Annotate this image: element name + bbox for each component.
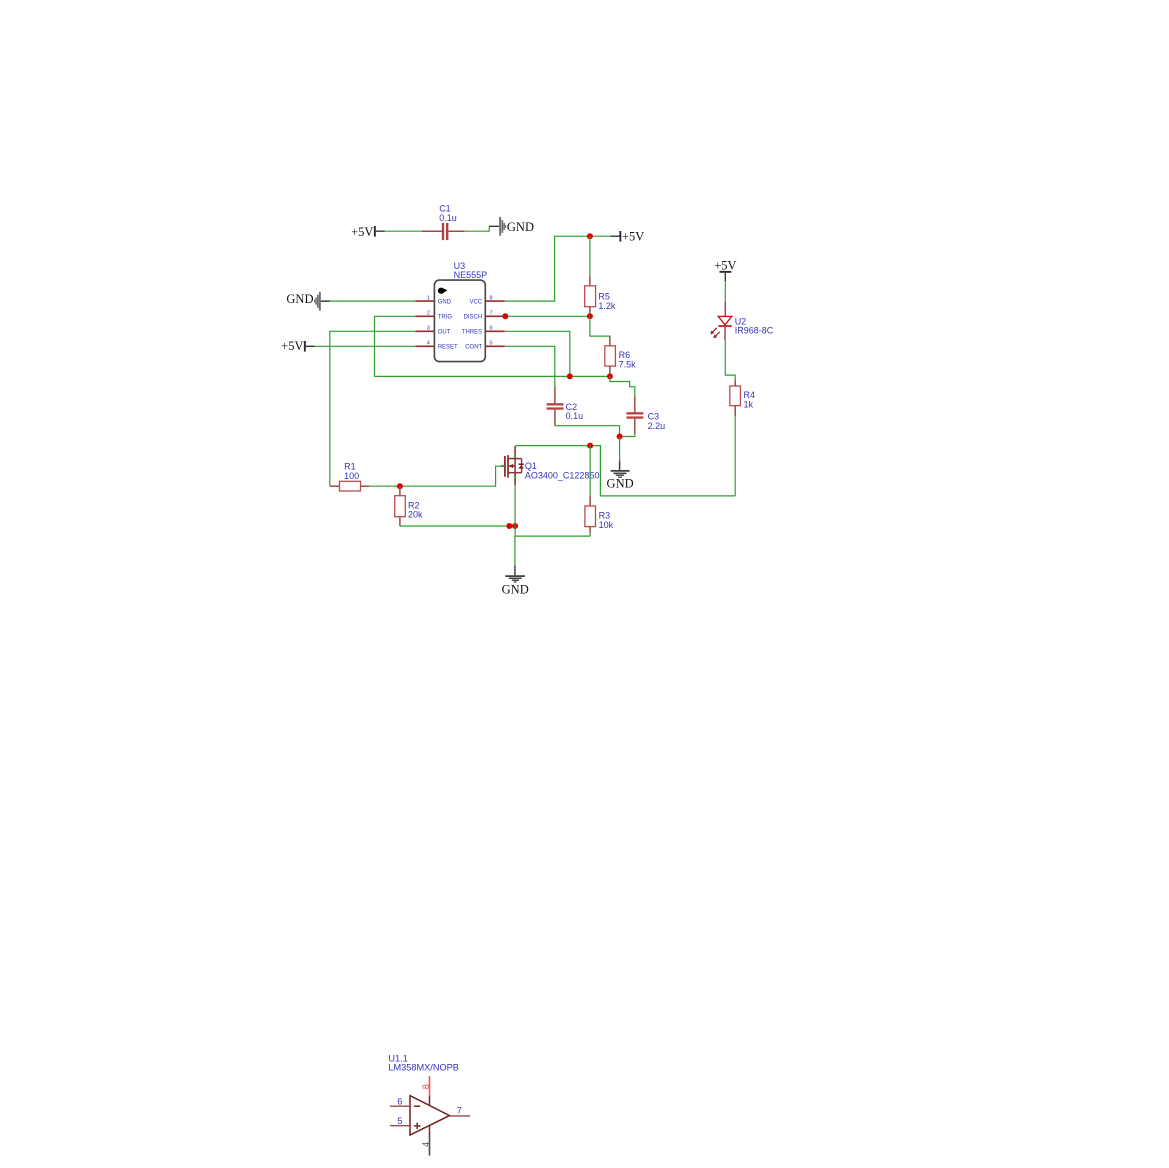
svg-text:RESET: RESET <box>438 345 458 351</box>
wire DISCH to R6 <box>590 316 610 337</box>
svg-text:7.5k: 7.5k <box>619 359 637 369</box>
capacitor C1 0.1u <box>422 204 465 241</box>
svg-text:5: 5 <box>490 341 493 347</box>
capacitor C3 2.2u <box>626 397 665 435</box>
svg-text:+5V: +5V <box>622 230 644 244</box>
capacitor C2 0.1u <box>547 387 584 426</box>
svg-text:6: 6 <box>397 1096 402 1106</box>
svg-text:+5V: +5V <box>351 225 373 239</box>
resistor R6 7.5k <box>605 337 636 377</box>
wire source node to ground <box>514 536 516 565</box>
svg-text:1: 1 <box>427 296 430 302</box>
svg-text:VCC: VCC <box>470 299 483 305</box>
svg-text:THRES: THRES <box>462 330 482 336</box>
IC U3 NE555P <box>416 261 505 362</box>
svg-text:6: 6 <box>490 326 493 332</box>
svg-text:4: 4 <box>427 341 430 347</box>
wire OUT net (pin3 down to R1) <box>330 331 416 486</box>
wire R1 to Q1 gate <box>369 466 502 486</box>
svg-text:GND: GND <box>607 477 634 491</box>
wire +5V to LED <box>724 281 726 301</box>
junction R2 top <box>397 483 403 489</box>
svg-text:LM358MX/NOPB: LM358MX/NOPB <box>388 1062 458 1072</box>
pin 8 V+ <box>429 1076 431 1096</box>
svg-text:10k: 10k <box>599 520 614 530</box>
wire R3 top drop <box>589 446 591 497</box>
power flag +5V (top rail) <box>611 230 645 244</box>
power flag +5V (C1 left) <box>351 225 385 239</box>
svg-text:8: 8 <box>490 296 493 302</box>
svg-text:+5V: +5V <box>281 339 303 353</box>
svg-text:CONT: CONT <box>465 345 482 351</box>
pin 7 output <box>450 1115 471 1117</box>
svg-text:IR968-8C: IR968-8C <box>735 326 774 336</box>
junction top rail / R5 <box>587 233 593 239</box>
svg-text:0.1u: 0.1u <box>566 411 584 421</box>
LED U2 IR968-8C <box>710 301 773 340</box>
ground GND (under Q1) <box>502 566 529 597</box>
transistor Q1 AO3400 <box>501 446 600 485</box>
ground flag GND (C1 right) <box>489 217 534 236</box>
resistor R4 1k <box>730 380 755 416</box>
resistor R2 20k <box>395 486 423 526</box>
pin 6 THRES <box>485 330 505 332</box>
wire C2 bottom to GND node <box>555 426 620 437</box>
wire CONT net <box>505 346 555 386</box>
pin 8 VCC <box>485 300 505 302</box>
svg-text:GND: GND <box>438 299 452 305</box>
wire DISCH net <box>505 315 590 317</box>
wire down to ground <box>619 437 621 462</box>
pin 5 CONT <box>485 345 505 347</box>
wire to C3 <box>610 376 635 396</box>
junction THRES drop <box>567 373 573 379</box>
pin 6 inverting input <box>390 1105 410 1107</box>
pin 3 OUT <box>416 330 435 332</box>
pin 5 non-inverting input <box>390 1125 410 1127</box>
wire drain rail (Q1 drain to R4 return) <box>515 446 735 496</box>
svg-text:DISCH: DISCH <box>464 315 483 321</box>
pin 2 TRIG <box>416 315 435 317</box>
svg-text:2: 2 <box>427 311 430 317</box>
wire R2 bottom to source node <box>400 525 515 527</box>
svg-text:20k: 20k <box>408 510 423 520</box>
wire C3 bottom to GND node <box>620 434 635 437</box>
pin 1 GND <box>416 300 435 302</box>
junction R6 bottom <box>607 373 613 379</box>
svg-text:4: 4 <box>421 1142 431 1147</box>
wire C1 to GND flag <box>465 226 490 231</box>
svg-text:100: 100 <box>344 471 359 481</box>
wire +5V to C1 <box>385 230 422 232</box>
wire Q1 source down and across to R3 bottom <box>515 485 590 536</box>
power flag +5V (RESET) <box>281 339 315 353</box>
pin 4 V- <box>429 1126 431 1137</box>
junction source node a <box>506 523 512 529</box>
svg-text:8: 8 <box>421 1084 431 1089</box>
wire GND flag to pin1 <box>321 300 416 302</box>
wire RESET net <box>315 345 416 347</box>
junction R5 bottom <box>587 313 593 319</box>
svg-text:5: 5 <box>397 1116 402 1126</box>
svg-text:R5: R5 <box>598 291 610 301</box>
svg-text:1k: 1k <box>744 399 754 409</box>
ground GND (under C3) <box>607 461 634 490</box>
svg-text:1.2k: 1.2k <box>598 301 616 311</box>
resistor R5 1.2k <box>585 276 616 316</box>
op-amp U1.1 LM358MX/NOPB <box>388 1054 470 1156</box>
junction source node b <box>512 523 518 529</box>
resistor R3 10k <box>585 496 614 533</box>
svg-text:+5V: +5V <box>714 258 736 272</box>
power flag +5V (LED) <box>714 258 736 281</box>
svg-text:GND: GND <box>507 220 534 234</box>
ground flag GND (pin1) <box>286 292 329 311</box>
wire VCC net: pin8 to top rail <box>505 236 611 301</box>
svg-text:0.1u: 0.1u <box>439 213 457 223</box>
pin 4 RESET <box>416 345 435 347</box>
svg-text:GND: GND <box>286 292 313 306</box>
svg-text:TRIG: TRIG <box>438 315 453 321</box>
svg-text:NE555P: NE555P <box>454 270 488 280</box>
svg-text:OUT: OUT <box>438 330 451 336</box>
wire TRIG net (pin2 to R6 bottom) <box>375 316 610 376</box>
junction pin7 <box>502 313 508 319</box>
wire R3 bottom <box>589 533 591 536</box>
wire R4 bottom down <box>734 416 736 496</box>
svg-text:GND: GND <box>502 583 529 597</box>
svg-text:7: 7 <box>490 311 493 317</box>
junction GND node <box>617 434 623 440</box>
resistor R1 100 <box>330 461 370 491</box>
svg-text:2.2u: 2.2u <box>648 421 666 431</box>
wire rail to R5 <box>589 236 591 277</box>
pin 7 DISCH <box>485 315 505 317</box>
junction R3 top <box>587 443 593 449</box>
svg-text:AO3400_C122850: AO3400_C122850 <box>525 470 600 480</box>
svg-text:7: 7 <box>457 1105 462 1115</box>
wire LED to R4 <box>725 340 735 379</box>
wire THRES net <box>505 331 570 376</box>
svg-text:3: 3 <box>427 326 430 332</box>
